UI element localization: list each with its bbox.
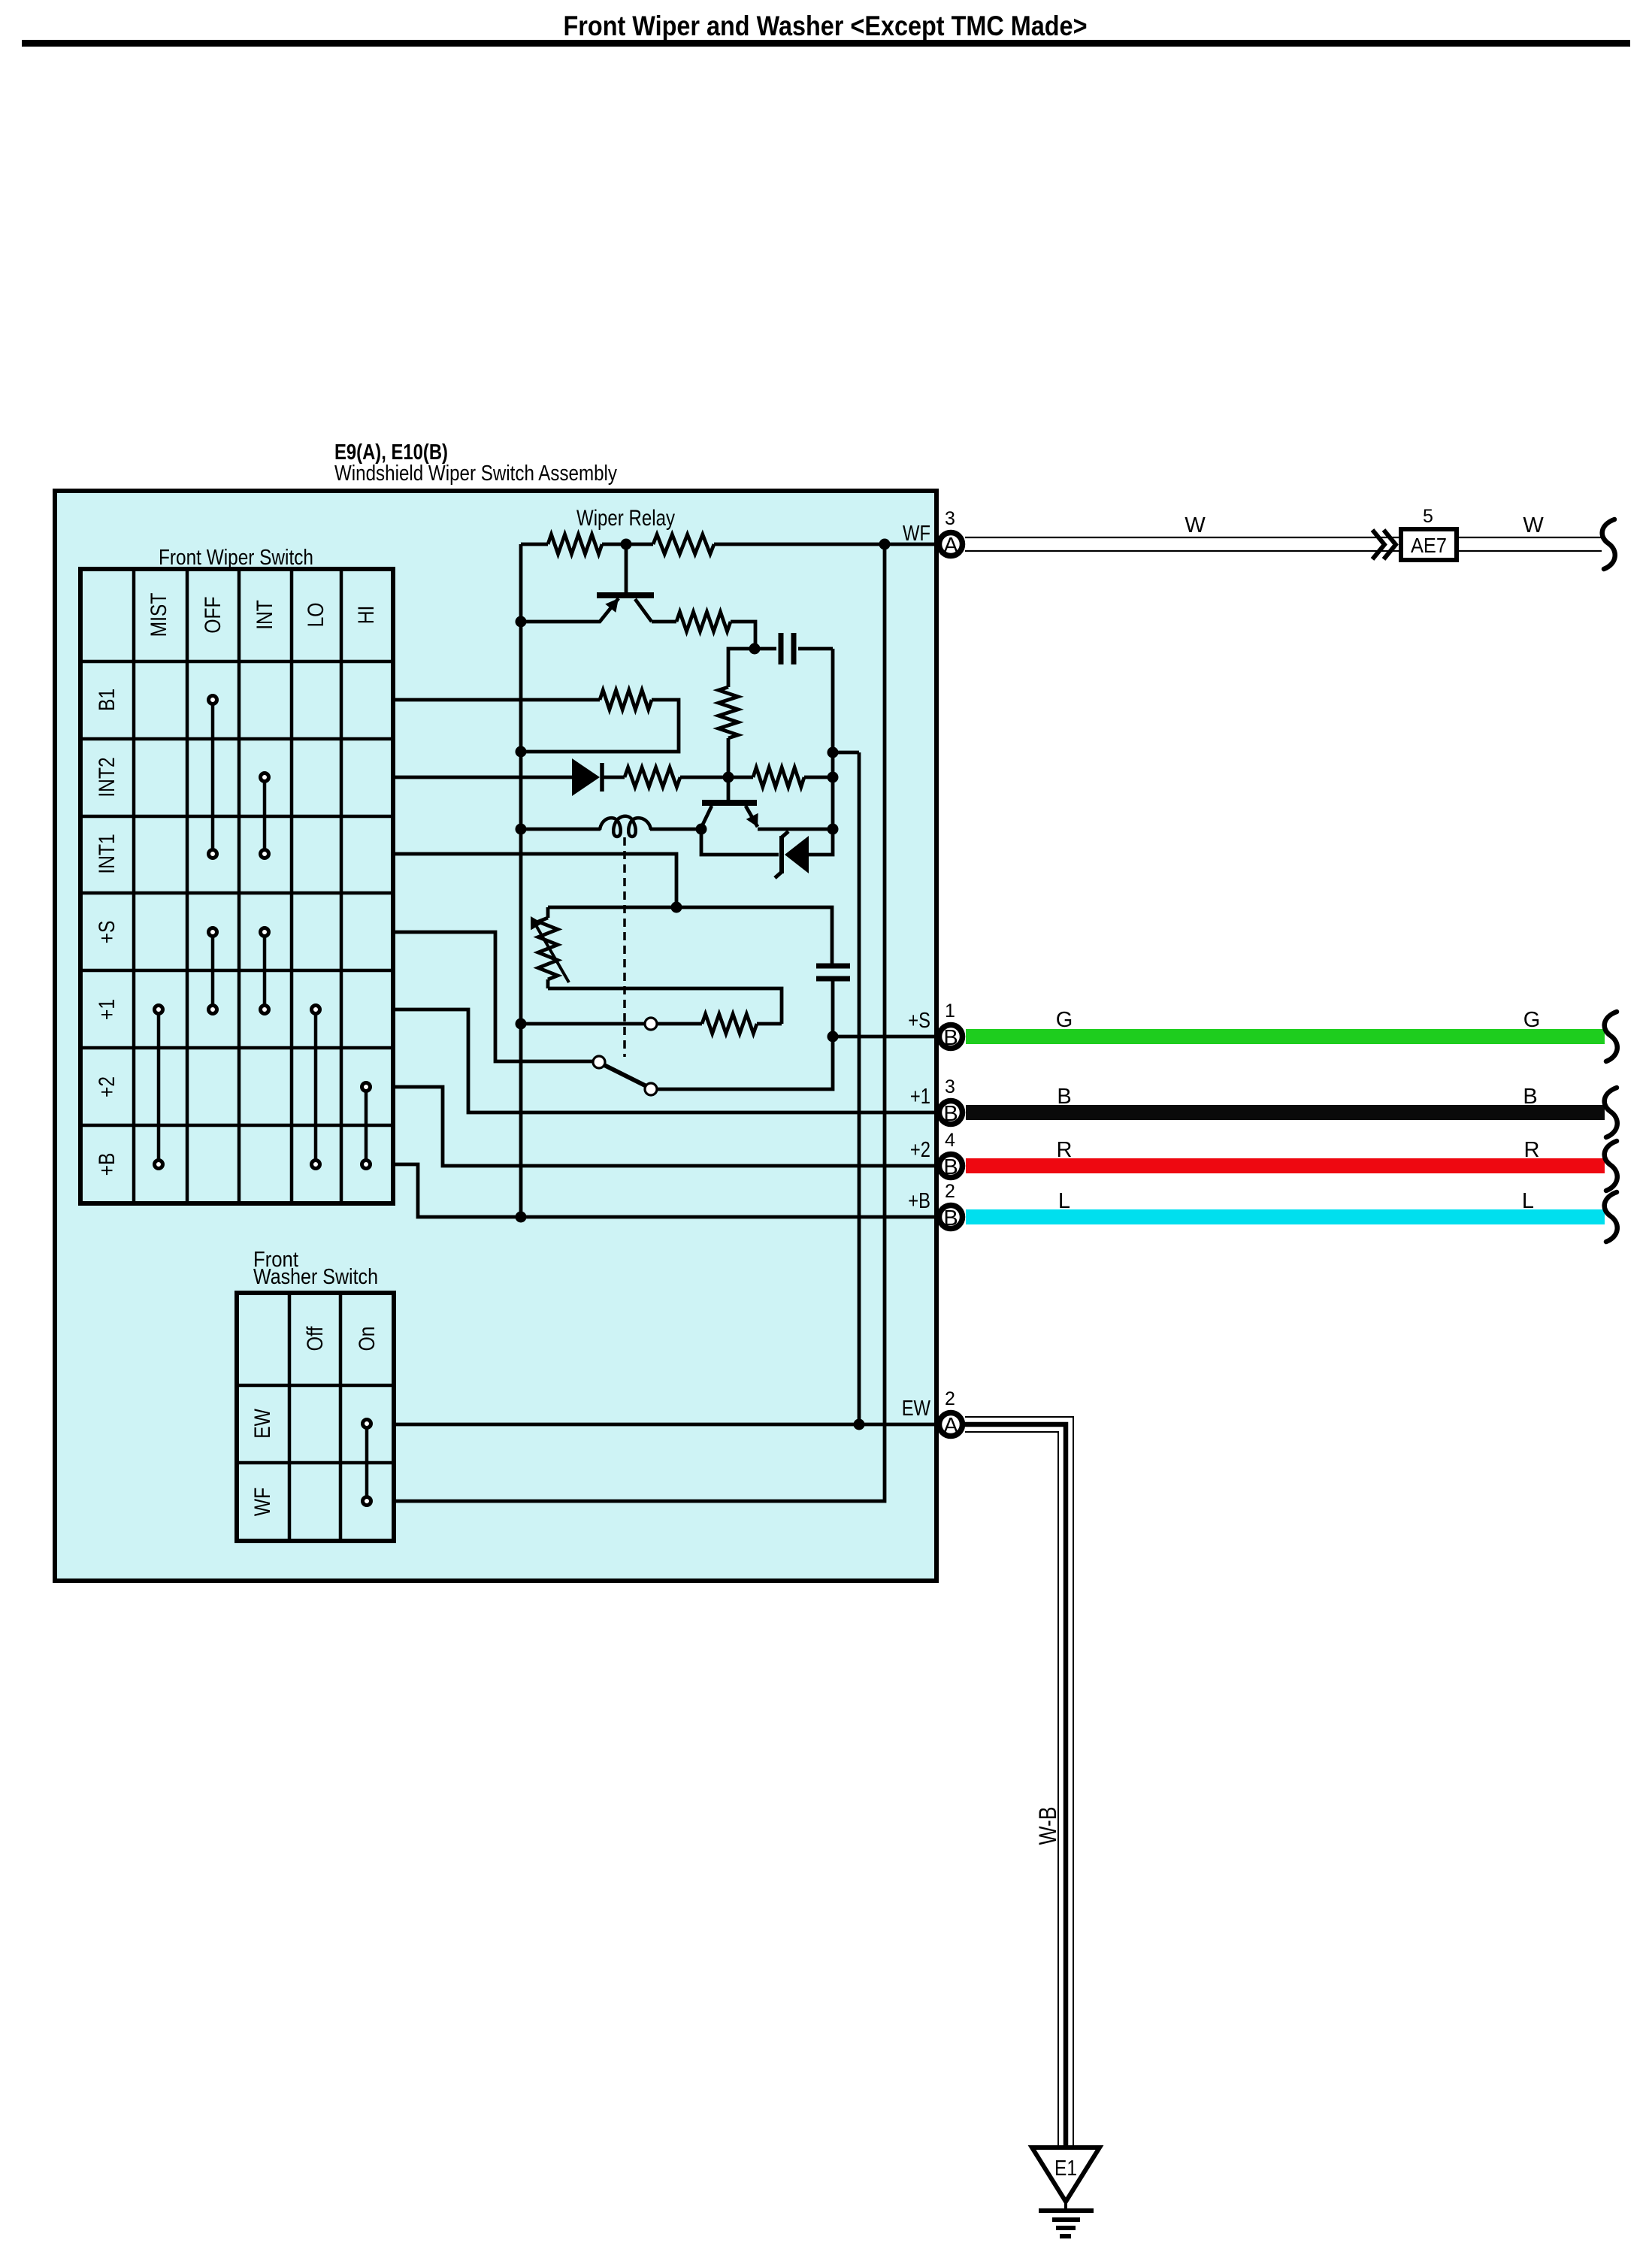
junction top-WF [879, 539, 891, 550]
svg-text:Front Wiper Switch: Front Wiper Switch [159, 546, 313, 570]
contact LO-+B [312, 1161, 320, 1169]
svg-text:B: B [943, 1102, 958, 1126]
contact bar INT +S-+1 [263, 936, 267, 1005]
wire timing loop bottom [548, 988, 782, 1024]
svg-text:4: 4 [945, 1130, 955, 1151]
wire R3 to C1 node [731, 622, 755, 649]
svg-text:R: R [1524, 1138, 1540, 1162]
svg-text:HI: HI [354, 606, 379, 625]
junction +S out [828, 1031, 839, 1043]
wire C2 to switch blade [657, 1037, 833, 1089]
svg-text:B: B [1057, 1085, 1071, 1109]
svg-text:L: L [1058, 1189, 1070, 1213]
wire main left vertical [519, 544, 523, 1215]
front washer switch table grid [237, 1293, 394, 1541]
junction R6 right [828, 772, 839, 783]
svg-text:EW: EW [250, 1409, 275, 1439]
front wiper switch table grid [80, 569, 393, 1203]
junction +S rail left [516, 1019, 527, 1030]
wire INT2 rail [392, 776, 573, 779]
svg-text:WF: WF [903, 522, 930, 546]
resistor R4 [719, 687, 738, 738]
svg-text:A: A [943, 534, 958, 558]
switch blade [603, 1064, 648, 1087]
contact OFF-B1 [209, 696, 217, 704]
connector B pin 2 (+B) [939, 1206, 963, 1231]
junction EW [854, 1419, 865, 1430]
resistor R6 [753, 767, 804, 787]
svg-text:R: R [1057, 1138, 1073, 1162]
contact pivot [593, 1056, 605, 1068]
wire +S contact rail [521, 1022, 645, 1026]
svg-text:3: 3 [945, 1076, 955, 1097]
washer contact On-WF [363, 1497, 371, 1506]
contact INT-+1 [261, 1006, 269, 1014]
resistor R3 [676, 612, 731, 631]
connector B pin 4 (+2) [939, 1155, 963, 1180]
contact bar INT INT2-INT1 [263, 781, 267, 849]
junction Q2 collector-coil [696, 824, 707, 835]
svg-text:B: B [943, 1206, 958, 1230]
svg-text:W: W [1185, 513, 1206, 537]
wire WF washer vertical [394, 544, 885, 1501]
wire B (B colour) [966, 1105, 1605, 1120]
wire +S out to pin [833, 1035, 937, 1039]
wire R8 right [757, 1022, 782, 1026]
svg-text:W: W [1523, 513, 1544, 537]
wire contact to R8 [657, 1022, 702, 1026]
junction Q1 emitter [516, 616, 527, 628]
wire +B row routing [393, 1164, 937, 1217]
wire C1 right drop [831, 649, 835, 752]
svg-text:+S: +S [908, 1009, 930, 1033]
svg-text:A: A [943, 1414, 958, 1438]
svg-text:Windshield Wiper Switch Assemb: Windshield Wiper Switch Assembly [334, 462, 617, 486]
contact bar LO +1-+B [314, 1013, 318, 1160]
svg-text:Front Wiper and Washer <Except: Front Wiper and Washer <Except TMC Made> [564, 11, 1088, 41]
svg-text:G: G [1056, 1008, 1073, 1032]
contact HI-+B [362, 1161, 371, 1169]
resistor R1 [548, 534, 602, 554]
svg-text:3: 3 [945, 508, 955, 529]
junction INT1-loop [671, 902, 682, 913]
contact INT-INT2 [261, 773, 269, 782]
junction right node A [828, 747, 839, 758]
ground E1 [1032, 2148, 1100, 2236]
contact MIST-+1 [155, 1006, 163, 1014]
wire R4 to INT2 rail [727, 738, 731, 777]
wire +S row to pivot [393, 932, 593, 1061]
svg-text:L: L [1522, 1189, 1534, 1213]
wire right vertical A-B [831, 752, 835, 829]
junction B1 return [516, 746, 527, 758]
wire continuation B [1605, 1088, 1617, 1137]
wire +1 row routing [393, 1009, 937, 1112]
svg-text:+1: +1 [910, 1085, 930, 1109]
svg-text:B: B [943, 1155, 958, 1179]
wire B1 rail [392, 698, 600, 702]
wire node to R4 [728, 649, 755, 687]
svg-text:AE7: AE7 [1411, 534, 1447, 557]
zener diode ZD1 [701, 829, 833, 878]
connector AE7 [1401, 529, 1457, 560]
washer contact bar On EW-WF [365, 1428, 369, 1497]
svg-text:B: B [1523, 1085, 1537, 1109]
svg-text:LO: LO [304, 603, 328, 628]
connector B pin 1 (+S) [939, 1025, 963, 1051]
svg-text:+1: +1 [95, 999, 120, 1020]
contact HI-+2 [362, 1083, 371, 1091]
junction C1 node [749, 643, 761, 655]
svg-text:2: 2 [945, 1181, 955, 1202]
svg-text:W-B: W-B [1034, 1807, 1061, 1845]
svg-text:+2: +2 [95, 1076, 120, 1097]
variable resistor VR1 [531, 907, 569, 988]
svg-text:Washer Switch: Washer Switch [253, 1265, 378, 1289]
contact INT-INT1 [261, 850, 269, 858]
svg-text:INT: INT [253, 600, 277, 630]
svg-text:WF: WF [250, 1488, 275, 1516]
wire G (G colour) [966, 1029, 1605, 1044]
wire W (WF to AE7) [965, 537, 1401, 551]
svg-text:1: 1 [945, 1000, 955, 1022]
contact point a [645, 1018, 657, 1030]
svg-text:E1: E1 [1054, 2157, 1077, 2181]
capacitor C1 [755, 633, 833, 664]
capacitor C2 [816, 966, 850, 1037]
wire W (AE7 onward) [1457, 537, 1602, 551]
junction Q2 base node [723, 772, 734, 783]
resistor R7 [600, 690, 652, 710]
wire timing loop top [548, 907, 832, 966]
wire node A to EW vertical [833, 751, 859, 755]
wire R6 to right vertical [804, 776, 833, 779]
svg-text:OFF: OFF [201, 596, 225, 633]
wire EW long vertical [858, 752, 861, 1424]
svg-text:B: B [943, 1026, 958, 1050]
svg-text:INT2: INT2 [95, 757, 120, 797]
svg-text:5: 5 [1423, 506, 1433, 527]
wire continuation W [1602, 519, 1615, 569]
junction top-R1R2 [621, 539, 632, 550]
svg-text:INT1: INT1 [95, 834, 120, 873]
relay coil L1 [521, 816, 701, 837]
diode D1 [572, 758, 625, 796]
resistor R8 [702, 1014, 757, 1034]
contact OFF-+1 [209, 1006, 217, 1014]
svg-text:On: On [355, 1327, 380, 1351]
wire R7 return [521, 700, 679, 752]
svg-text:+S: +S [95, 921, 120, 944]
contact bar HI +2-+B [365, 1091, 368, 1160]
svg-text:MIST: MIST [147, 593, 171, 637]
wire R (R colour) [966, 1158, 1605, 1173]
wire L (L colour) [966, 1209, 1605, 1224]
inline connector arrows [1372, 530, 1396, 559]
windshield wiper switch assembly box E9/E10 [55, 491, 936, 1581]
wire W-B (EW to E1) [965, 1417, 1073, 2147]
svg-text:2: 2 [945, 1388, 955, 1409]
svg-text:+2: +2 [910, 1138, 930, 1162]
junction Q2 emitter-right [828, 824, 839, 835]
connector B pin 3 (+1) [939, 1101, 963, 1127]
svg-text:Off: Off [303, 1326, 328, 1351]
svg-text:B1: B1 [95, 689, 120, 711]
transistor Q2 [701, 777, 833, 829]
svg-text:+B: +B [908, 1189, 930, 1213]
contact INT-+S [261, 928, 269, 937]
transistor Q1 [521, 544, 676, 622]
contact bar OFF +S-+1 [211, 936, 215, 1005]
contact blade end [645, 1083, 657, 1095]
contact LO-+1 [312, 1006, 320, 1014]
junction +B-main vertical [516, 1212, 527, 1223]
contact MIST-+B [155, 1161, 163, 1169]
wire continuation G [1605, 1012, 1617, 1061]
contact bar MIST +1-+B [157, 1013, 161, 1160]
wire continuation L [1605, 1192, 1617, 1242]
contact OFF-INT1 [209, 850, 217, 858]
junction coil-left [516, 824, 527, 835]
washer contact On-EW [363, 1420, 371, 1428]
wire INT1 rail [392, 854, 676, 907]
svg-text:Wiper Relay: Wiper Relay [576, 506, 675, 531]
wire EW rail [394, 1423, 936, 1427]
resistor R5 [625, 767, 680, 787]
connector A pin 3 (WF) [939, 533, 963, 558]
wire WF top rail [521, 543, 936, 546]
svg-text:+B: +B [95, 1153, 120, 1176]
svg-text:G: G [1523, 1008, 1541, 1032]
svg-text:EW: EW [902, 1397, 931, 1421]
title rule [22, 40, 1630, 47]
resistor R2 [653, 534, 714, 554]
connector A pin 2 (EW) [939, 1413, 963, 1439]
contact OFF-+S [209, 928, 217, 937]
wire R5 to node [680, 776, 753, 779]
mechanical link (dashed) [623, 837, 626, 1057]
contact bar OFF B1-INT1 [211, 704, 215, 849]
wire continuation R [1605, 1141, 1617, 1191]
wire +2 row routing [393, 1087, 937, 1166]
